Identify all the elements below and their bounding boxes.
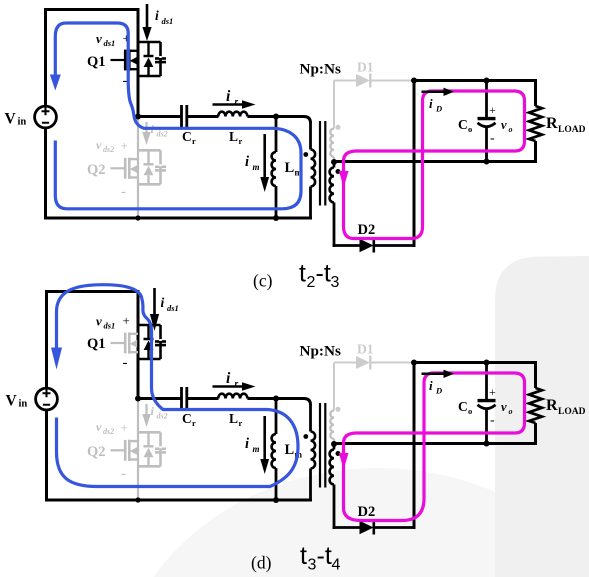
capacitor Cr: [182, 105, 187, 128]
wire: Cr to Lr: [187, 115, 219, 118]
label Co: [458, 117, 472, 134]
background band (right, light gray rounded corner): [495, 256, 589, 577]
svg-text:r: r: [235, 98, 239, 108]
svg-text:t: t: [300, 542, 307, 570]
label i_r: [226, 370, 239, 390]
label Vin: [5, 111, 27, 128]
label i_ds2 (gray): [151, 404, 168, 421]
svg-text:+: +: [121, 138, 128, 153]
current arrow i_ds2 (gray): [145, 122, 147, 133]
svg-text:i: i: [226, 370, 231, 387]
svg-text:i: i: [245, 436, 249, 452]
transformer secondary lower winding: [333, 444, 336, 450]
label i_ds2 (gray): [151, 122, 168, 139]
current arrow i_D: [422, 373, 445, 376]
wire: Lr to Lm node: [247, 115, 304, 118]
svg-text:R: R: [546, 397, 558, 414]
label i_D: [429, 378, 442, 396]
svg-text:ds2: ds2: [103, 145, 114, 154]
transformer secondary upper winding (gray, inactive): [333, 363, 335, 411]
transformer secondary upper winding (gray, inactive): [333, 81, 335, 129]
svg-text:r: r: [239, 418, 243, 428]
node: Lm bottom junction: [273, 497, 279, 503]
current arrow i_ds2 (gray): [145, 404, 147, 415]
wire: output return rail to center tap: [334, 160, 537, 163]
wire: Q1 drain-source vertical: [137, 8, 140, 118]
svg-text:r: r: [192, 418, 196, 428]
svg-text:D2: D2: [358, 504, 376, 520]
caption t2-t3: [299, 260, 340, 292]
svg-text:D1: D1: [357, 60, 374, 75]
svg-text:m: m: [253, 444, 260, 454]
wire: left vertical (Vin branch lower): [45, 410, 48, 502]
node: transformer center tap: [331, 441, 337, 447]
svg-text:C: C: [182, 411, 192, 426]
svg-text:L: L: [285, 442, 295, 458]
svg-text:ds1: ds1: [162, 16, 174, 26]
node: Q2 bottom junction: [135, 215, 140, 220]
svg-text:o: o: [468, 406, 472, 416]
svg-text:L: L: [285, 160, 295, 176]
svg-text:V: V: [6, 393, 18, 410]
polarity dot: secondary upper (gray): [336, 125, 341, 130]
svg-text:i: i: [226, 88, 231, 105]
svg-text:LOAD: LOAD: [558, 125, 586, 135]
wire: output positive rail: [414, 361, 537, 364]
label v_ds1 with polarity: [96, 31, 130, 90]
label vo with polarity: [489, 103, 513, 146]
svg-text:C: C: [458, 117, 468, 132]
svg-text:C: C: [458, 399, 468, 414]
svg-text:Q2: Q2: [87, 162, 106, 178]
polarity dot: primary: [303, 152, 308, 157]
current arrow i_m: [263, 416, 266, 460]
wire: D2 cathode vertical riser: [413, 79, 416, 247]
svg-text:i: i: [429, 96, 433, 111]
wire: primary resonant current loop (blue), circuit (d): [57, 285, 299, 487]
caption t3-t4: [300, 542, 341, 574]
polarity dot: primary: [303, 434, 308, 439]
label i_r: [226, 88, 239, 108]
svg-text:4: 4: [332, 557, 341, 574]
svg-text:ds2: ds2: [157, 412, 168, 421]
svg-text:v: v: [96, 31, 102, 46]
label v_ds1 with polarity: [96, 313, 130, 371]
svg-text:m: m: [253, 162, 260, 172]
transistor Q1 (MOSFET, off - gray): [111, 332, 139, 353]
transformer primary winding: [304, 399, 311, 406]
Q1 body diode and output capacitance (conducting): [137, 325, 161, 359]
capacitor Co: [478, 81, 496, 162]
polarity dot: secondary upper (gray): [336, 407, 341, 412]
wire: left vertical (Vin branch upper): [45, 290, 48, 388]
svg-text:v: v: [96, 314, 102, 329]
wire: node to Cr: [138, 397, 181, 400]
svg-text:i: i: [155, 8, 159, 23]
wire: secondary current loop (magenta): [344, 373, 525, 521]
arrowhead: primary current direction (blue), circuit (d): [51, 348, 62, 370]
svg-text:-t: -t: [317, 542, 332, 570]
svg-text:-: -: [121, 466, 126, 482]
node: Co top: [484, 360, 490, 366]
diode D2 (conducting): [360, 239, 416, 253]
svg-text:L: L: [229, 411, 238, 426]
current arrow i_D: [422, 91, 445, 94]
svg-text:Q2: Q2: [87, 444, 106, 460]
node: transformer center tap: [331, 159, 337, 165]
svg-text:2: 2: [307, 274, 316, 291]
svg-text:C: C: [182, 129, 192, 144]
resistor R_LOAD: [529, 79, 542, 163]
svg-text:in: in: [19, 399, 28, 410]
capacitor Co: [478, 363, 496, 444]
svg-text:ds1: ds1: [104, 38, 116, 48]
label v_ds2 with polarity (gray): [96, 138, 128, 200]
label Lr: [229, 411, 243, 428]
svg-text:ds1: ds1: [167, 303, 179, 313]
svg-text:LOAD: LOAD: [558, 407, 586, 417]
transformer core lines: [320, 121, 325, 206]
label R_LOAD: [546, 115, 586, 135]
svg-text:-: -: [490, 413, 495, 428]
wire: secondary current loop (magenta): [344, 91, 525, 239]
node: rectifier output: [411, 78, 417, 84]
svg-text:v: v: [501, 118, 507, 132]
svg-text:D2: D2: [358, 222, 376, 238]
transformer core lines: [320, 403, 325, 488]
node: Co bottom: [484, 441, 490, 447]
label Cr: [182, 411, 196, 428]
svg-text:3: 3: [308, 557, 317, 574]
svg-text:r: r: [192, 136, 196, 146]
svg-text:V: V: [5, 111, 17, 128]
wire: left vertical (Vin branch upper): [44, 8, 47, 106]
svg-text:Np:Ns: Np:Ns: [300, 343, 341, 360]
svg-text:t: t: [299, 260, 306, 288]
label Cr: [182, 129, 196, 146]
label i_D: [429, 96, 442, 114]
svg-text:i: i: [429, 378, 433, 393]
label i_ds1: [161, 295, 179, 313]
label Lm: [285, 160, 303, 178]
current arrow i_r: [213, 385, 244, 388]
Q1 body diode and output capacitance: [137, 42, 161, 76]
svg-text:-t: -t: [316, 260, 331, 288]
wire: secondary lower to D2: [333, 244, 360, 247]
node: Lm top junction: [273, 396, 279, 402]
svg-text:D: D: [435, 104, 442, 114]
wire: Cr to Lr: [187, 397, 219, 400]
resistor R_LOAD: [529, 361, 542, 445]
svg-text:i: i: [245, 154, 249, 170]
wire: top horizontal of input loop: [44, 8, 140, 11]
diode D1 (gray, not conducting): [334, 356, 413, 370]
Q2 body diode and output capacitance (gray): [137, 150, 161, 184]
wire: secondary lower to D2: [333, 526, 360, 529]
svg-text:Q1: Q1: [87, 54, 106, 70]
polarity dot: secondary lower: [336, 451, 341, 456]
svg-text:D: D: [435, 386, 442, 396]
voltage source Vin: [35, 106, 57, 128]
svg-text:L: L: [229, 129, 238, 144]
svg-text:r: r: [239, 136, 243, 146]
voltage source Vin: [36, 388, 58, 410]
transistor Q2 (MOSFET, off - gray): [111, 440, 139, 461]
svg-text:(d): (d): [251, 553, 272, 573]
svg-text:o: o: [509, 125, 513, 134]
svg-text:r: r: [235, 380, 239, 390]
svg-text:ds2: ds2: [157, 130, 168, 139]
svg-text:i: i: [161, 295, 165, 310]
svg-text:Np:Ns: Np:Ns: [300, 61, 341, 78]
svg-text:v: v: [96, 420, 102, 434]
wire: bottom horizontal of input loop: [44, 217, 312, 220]
node: Lm bottom junction: [273, 215, 279, 221]
wire: Lr to Lm node: [247, 397, 304, 400]
wire: output return rail to center tap: [334, 442, 537, 445]
label R_LOAD: [546, 397, 586, 417]
arrowhead: secondary current direction (magenta): [339, 171, 349, 188]
Q2 body diode and output capacitance (gray): [137, 432, 161, 466]
svg-text:-: -: [121, 184, 126, 200]
node: Co top: [484, 78, 490, 84]
arrowhead: secondary current direction (magenta): [339, 453, 349, 470]
svg-text:v: v: [501, 400, 507, 414]
label Lm: [285, 442, 303, 460]
svg-text:-: -: [490, 131, 495, 146]
diode D2 (conducting): [360, 521, 416, 535]
transistor Q1 (MOSFET, on): [111, 49, 139, 70]
wire: Q2 vertical (gray, inactive): [137, 117, 139, 219]
svg-text:+: +: [489, 385, 496, 399]
svg-text:-: -: [123, 355, 128, 371]
svg-text:Q1: Q1: [87, 336, 106, 352]
label vo with polarity: [489, 385, 513, 428]
svg-text:D1: D1: [357, 342, 374, 357]
node: rectifier output: [411, 360, 417, 366]
wire: node to Cr: [138, 115, 181, 118]
svg-text:+: +: [489, 103, 496, 117]
node: Q1-source / Cr junction: [135, 396, 141, 402]
label i_m: [245, 154, 260, 172]
transformer secondary lower winding: [333, 162, 336, 168]
wire: output positive rail: [414, 79, 537, 82]
svg-text:+: +: [123, 313, 130, 328]
transformer primary winding: [304, 117, 311, 124]
svg-text:R: R: [546, 115, 558, 132]
inductor Lr: [218, 112, 247, 117]
wire: Q1 drain-source vertical: [137, 290, 140, 400]
current arrow i_m: [263, 134, 266, 178]
capacitor Cr: [182, 387, 187, 410]
svg-text:i: i: [151, 404, 155, 418]
svg-text:v: v: [96, 138, 102, 152]
label i_ds1: [155, 8, 173, 26]
inductor Lm: [275, 117, 278, 153]
wire: primary resonant current loop (blue), circuit (c): [55, 23, 301, 209]
wire: bottom horizontal of input loop: [45, 499, 312, 502]
inductor Lm: [275, 399, 278, 435]
label Co: [458, 399, 472, 416]
label v_ds2 with polarity (gray): [96, 420, 128, 482]
svg-text:in: in: [18, 117, 27, 128]
arrowhead: primary current direction (blue), circuit (c): [50, 75, 61, 91]
current arrow i_r: [213, 103, 244, 106]
current arrow i_ds1: [146, 4, 149, 28]
svg-text:o: o: [468, 124, 472, 134]
wire: D2 cathode vertical riser: [413, 361, 416, 529]
wire: left vertical (Vin branch lower): [44, 128, 47, 220]
label i_m: [245, 436, 260, 454]
current arrow i_ds1: [153, 288, 156, 315]
node: Lm top junction: [273, 114, 279, 120]
transistor Q2 (MOSFET, off - gray): [111, 158, 139, 179]
wire: Q2 vertical (gray, inactive): [137, 399, 139, 501]
label Lr: [229, 129, 243, 146]
label Vin: [6, 393, 28, 410]
svg-text:+: +: [121, 420, 128, 435]
polarity dot: secondary lower: [336, 169, 341, 174]
svg-text:ds2: ds2: [103, 427, 114, 436]
wire: top horizontal of input loop: [45, 290, 140, 293]
svg-text:(c): (c): [253, 271, 273, 291]
node: Q1-source / Cr junction: [135, 114, 141, 120]
diode D1 (gray, not conducting): [334, 74, 413, 88]
node: Q2 bottom junction: [135, 497, 140, 502]
node: Co bottom: [484, 159, 490, 165]
svg-text:3: 3: [331, 274, 340, 291]
svg-text:o: o: [509, 407, 513, 416]
svg-text:ds1: ds1: [104, 321, 116, 331]
background blob (bottom, very light gray ellipse): [113, 468, 589, 577]
inductor Lr: [218, 394, 247, 399]
